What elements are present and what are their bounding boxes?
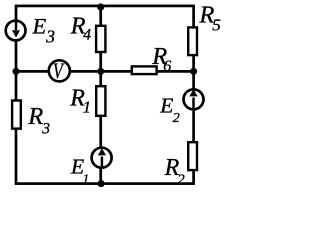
svg-text:3: 3 <box>45 26 55 46</box>
svg-text:4: 4 <box>83 26 91 43</box>
svg-text:V: V <box>53 59 65 83</box>
svg-text:1: 1 <box>83 171 90 186</box>
svg-text:1: 1 <box>83 97 92 116</box>
svg-text:E: E <box>159 93 173 117</box>
svg-text:2: 2 <box>173 111 180 126</box>
svg-text:6: 6 <box>163 58 171 75</box>
svg-text:3: 3 <box>41 121 50 138</box>
svg-text:2: 2 <box>177 172 185 188</box>
svg-text:5: 5 <box>212 15 221 34</box>
svg-text:R: R <box>27 103 43 130</box>
svg-text:E: E <box>32 13 47 38</box>
